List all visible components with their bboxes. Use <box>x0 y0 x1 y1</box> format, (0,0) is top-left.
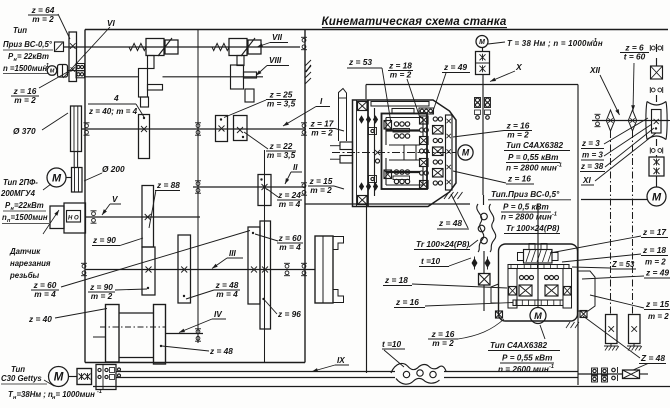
clutch 1 boxes <box>146 39 164 56</box>
svg-text:М: М <box>54 372 64 384</box>
leadscrew break symbol <box>391 363 446 373</box>
bevel diamond 1 <box>606 110 614 131</box>
gear z88 on shaft V <box>142 186 154 248</box>
svg-text:М: М <box>50 68 55 74</box>
svg-text:М: М <box>652 191 662 203</box>
svg-text:Тип 2ПФ-: Тип 2ПФ- <box>3 178 38 187</box>
svg-text:z = 3: z = 3 <box>581 139 600 148</box>
bevel diamond 2 <box>628 110 636 131</box>
shaft VIII <box>68 70 77 72</box>
svg-text:t =10: t =10 <box>421 256 441 266</box>
rack pinion xbox <box>623 370 640 379</box>
svg-text:n = 2600 мин: n = 2600 мин <box>498 365 549 374</box>
right strip B <box>433 117 437 121</box>
motor M T38 <box>476 36 488 48</box>
apron left bracket <box>491 284 499 303</box>
svg-text:m = 2: m = 2 <box>311 127 333 137</box>
svg-text:m = 2: m = 2 <box>390 69 412 79</box>
wall hatching near shaft VIII <box>306 65 311 72</box>
svg-text:m = 2: m = 2 <box>432 338 454 348</box>
svg-text:z = 48: z = 48 <box>438 218 462 228</box>
svg-text:резьбы: резьбы <box>9 271 40 280</box>
svg-text:Датчик: Датчик <box>9 247 41 256</box>
svg-text:z = 38: z = 38 <box>580 162 604 171</box>
belt arrows pair <box>472 258 478 268</box>
svg-text:z = 16: z = 16 <box>395 297 419 307</box>
feedbox right wall x578 <box>577 85 579 386</box>
apron bottom gear band <box>513 300 563 306</box>
thread sensor box <box>64 203 86 233</box>
right strip A <box>420 116 429 124</box>
bearing under wheel <box>650 148 662 154</box>
svg-text:m = 2: m = 2 <box>14 95 36 105</box>
svg-text:Ø 370: Ø 370 <box>13 126 36 136</box>
apron right bracket <box>578 271 596 311</box>
headstock left column <box>367 100 369 207</box>
svg-text:VIII: VIII <box>269 56 282 65</box>
svg-text:=38Нм ; n: =38Нм ; n <box>17 390 54 399</box>
svg-text:n = 2800 мин: n = 2800 мин <box>501 213 552 222</box>
svg-text:m = 2: m = 2 <box>648 312 669 321</box>
clutch 1 hanger <box>148 56 155 69</box>
svg-text:m = 3,5: m = 3,5 <box>267 150 296 160</box>
svg-text:VII: VII <box>272 33 283 42</box>
screw nut <box>524 250 553 264</box>
svg-text:z = 16: z = 16 <box>507 174 531 184</box>
ground right <box>633 344 635 347</box>
bed line y204 <box>305 203 470 205</box>
belt axis <box>100 326 166 328</box>
bed vertical x366 <box>366 204 368 373</box>
bearing shaft II x198 <box>195 181 201 193</box>
svg-text:Р = 0,5 кВт: Р = 0,5 кВт <box>503 203 549 212</box>
spring clutch 1 <box>129 43 146 50</box>
lower gear cluster <box>384 170 392 179</box>
gear z25 <box>216 116 228 142</box>
svg-text:n =1500мин: n =1500мин <box>3 64 47 73</box>
belt pulley left <box>106 305 120 363</box>
svg-text:М: М <box>52 172 62 184</box>
svg-text:= 1000мин: = 1000мин <box>56 390 96 399</box>
shaft VII <box>64 46 301 48</box>
spindle axis <box>332 152 456 154</box>
motor pulley D200 <box>72 168 83 193</box>
headstock motor <box>458 145 473 160</box>
bottom rack line <box>93 386 670 388</box>
svg-text:4: 4 <box>113 93 119 103</box>
svg-text:m = 4: m = 4 <box>216 289 238 299</box>
vertical screw chain <box>483 195 485 205</box>
frame left wall <box>84 30 86 363</box>
coupling on motor shaft <box>58 65 68 78</box>
xbox below chain <box>479 274 491 286</box>
feedbox top line y84.5 <box>366 84 578 86</box>
shaft V <box>86 216 201 218</box>
intermediate shaft column x198 <box>197 30 199 344</box>
worm gear box on X <box>476 52 490 75</box>
motor C30 Gettys <box>49 367 69 387</box>
svg-text:z = 90: z = 90 <box>92 235 116 245</box>
leader z60 left long <box>61 231 250 288</box>
svg-text:Тип С4АХ6382: Тип С4АХ6382 <box>490 341 547 350</box>
svg-text:III: III <box>229 249 237 258</box>
svg-text:m = 4: m = 4 <box>279 199 301 209</box>
gear hanging right <box>629 315 641 344</box>
spindle chuck <box>315 236 333 303</box>
middle gear mark <box>375 150 380 155</box>
svg-text:Кинематическая схема станка: Кинематическая схема станка <box>322 15 507 28</box>
svg-text:Z = 48: Z = 48 <box>640 353 665 363</box>
bearing box <box>96 365 116 390</box>
gear z48 m4 on shaft III <box>178 235 191 303</box>
clutch bar right <box>446 115 453 190</box>
svg-text:Р = 0,55 кВт: Р = 0,55 кВт <box>502 354 552 363</box>
svg-text:VI: VI <box>107 19 115 28</box>
svg-text:m = 2: m = 2 <box>310 185 332 195</box>
shaft III <box>85 269 315 271</box>
svg-text:Ø 200: Ø 200 <box>102 164 125 174</box>
svg-text:М: М <box>534 311 542 321</box>
coupling worm motor <box>649 157 664 176</box>
worm z6 box <box>651 66 663 79</box>
bearing shaft III left <box>81 263 87 275</box>
inner spline shaft <box>374 108 376 196</box>
apron housing <box>499 244 578 321</box>
vertical to gear right <box>632 131 634 315</box>
leader t60 to diamond <box>633 63 634 111</box>
bearing shaft IV <box>195 329 201 341</box>
shaft I <box>82 128 307 130</box>
gearbox right wall <box>304 30 306 363</box>
leaders z3 m3 z38 <box>604 118 648 144</box>
pulley D370 <box>71 106 82 152</box>
svg-text:m = 2: m = 2 <box>32 14 54 24</box>
apron top gear band <box>508 265 569 269</box>
bearing marks left <box>369 128 377 135</box>
svg-text:-1: -1 <box>592 38 597 44</box>
svg-text:m = 2: m = 2 <box>645 258 666 267</box>
bearing shaft VII right <box>301 37 307 49</box>
main motor 2PF <box>47 168 66 187</box>
svg-text:XI: XI <box>582 176 591 185</box>
svg-text:m = 4: m = 4 <box>279 242 301 252</box>
screw to feed motor <box>581 199 647 201</box>
svg-text:m = 2: m = 2 <box>91 291 113 301</box>
svg-text:z = 40; m = 4: z = 40; m = 4 <box>88 107 138 116</box>
svg-text:Тип: Тип <box>13 26 27 35</box>
svg-text:z = 15: z = 15 <box>645 299 669 309</box>
svg-text:Н О: Н О <box>68 216 79 222</box>
svg-text:нарезания: нарезания <box>10 259 51 268</box>
gear z22 <box>234 116 248 141</box>
svg-text:m = 3,5: m = 3,5 <box>267 98 296 108</box>
svg-text:-1: -1 <box>552 212 557 218</box>
svg-text:XII: XII <box>589 66 601 75</box>
svg-text:-1: -1 <box>549 364 554 370</box>
cross screw vertical <box>537 204 539 308</box>
svg-text:Приз ВС-0,5°: Приз ВС-0,5° <box>3 40 53 49</box>
svg-text:n = 2800 мин: n = 2800 мин <box>506 164 557 173</box>
shaft XII line <box>592 120 669 122</box>
apron center gears right <box>545 276 549 280</box>
bearings shaft III right <box>284 263 290 275</box>
gear block z64-z16 <box>69 32 77 82</box>
leader z16 <box>39 72 68 88</box>
bearing shaft V <box>91 211 97 223</box>
motor M 22kW <box>47 66 57 76</box>
svg-text:z = 18: z = 18 <box>642 245 666 255</box>
bearing under worm <box>650 87 662 93</box>
svg-text:М: М <box>462 148 470 158</box>
spindle nose column <box>339 89 347 142</box>
svg-text:С30 Gettys: С30 Gettys <box>1 374 42 383</box>
svg-text:z = 18: z = 18 <box>384 275 408 285</box>
svg-text:=1500мин: =1500мин <box>11 213 48 222</box>
svg-text:-1: -1 <box>557 163 562 169</box>
svg-text:z = 96: z = 96 <box>277 309 301 319</box>
svg-text:t =10: t =10 <box>382 339 402 349</box>
svg-text:= 22кВт: = 22кВт <box>17 52 49 61</box>
svg-text:Тип С4АХ6382: Тип С4АХ6382 <box>506 141 563 150</box>
bearing shaft I left <box>84 123 90 135</box>
leadscrew line <box>116 371 395 373</box>
shaft II <box>193 186 306 188</box>
svg-text:z = 53: z = 53 <box>348 57 372 67</box>
diamond row bottom <box>359 182 364 190</box>
clutch 2 hanger <box>237 56 244 66</box>
bearings on shaft X <box>476 98 480 102</box>
spring clutch 2 <box>212 43 229 50</box>
bearing shaft I right wall <box>301 123 307 135</box>
apron left column <box>508 269 517 309</box>
xbox top-left <box>358 102 368 111</box>
gear z17 hanging <box>606 315 618 344</box>
headstock housing <box>353 100 457 207</box>
ground left <box>610 344 612 347</box>
spindle nose <box>340 142 353 150</box>
svg-text:Р = 0,55 кВт: Р = 0,55 кВт <box>508 153 558 162</box>
svg-text:z = 49: z = 49 <box>645 268 669 278</box>
bearings on feed rod <box>592 368 598 375</box>
belt pulley right <box>154 305 166 365</box>
svg-text:z = 40: z = 40 <box>28 314 52 324</box>
svg-text:m = 2: m = 2 <box>507 129 529 139</box>
svg-text:Тип: Тип <box>11 365 25 374</box>
clutch 2 boxes <box>229 39 247 56</box>
svg-text:m = 3: m = 3 <box>582 151 603 160</box>
svg-text:Z = 53: Z = 53 <box>611 260 635 269</box>
belt lines <box>119 312 154 314</box>
shaft IV <box>93 336 106 338</box>
worm wheel <box>646 102 667 140</box>
bearing XII left <box>595 114 601 126</box>
apron right column <box>563 269 572 309</box>
bearing shaft I x198 <box>195 123 201 135</box>
gearbox bottom wall <box>85 362 305 364</box>
svg-text:t = 60: t = 60 <box>624 51 646 61</box>
leader VI <box>63 27 110 78</box>
diamond row top <box>359 115 364 123</box>
mid bars <box>389 144 420 146</box>
bearing block <box>76 64 85 71</box>
svg-text:Т = 38 Нм ; n = 1000мин: Т = 38 Нм ; n = 1000мин <box>507 39 603 48</box>
svg-text:Tr 100×24(Р8): Tr 100×24(Р8) <box>506 224 560 233</box>
gear z24 on shaft II <box>258 175 271 206</box>
svg-text:-1: -1 <box>97 389 102 395</box>
apron hatch bottom <box>566 322 570 328</box>
apron center gears left <box>520 276 524 280</box>
svg-text:Tr 100×24(Р8): Tr 100×24(Р8) <box>416 240 470 249</box>
xbox bottom-left <box>358 196 368 205</box>
svg-text:z = 88: z = 88 <box>156 180 180 190</box>
bearing shaft II wall <box>301 183 307 195</box>
variator box on shaft VII <box>55 42 64 52</box>
svg-text:=22кВт: =22кВт <box>14 201 44 210</box>
leader z64 <box>58 14 70 39</box>
intermediate shaft column x264 <box>264 150 266 363</box>
bearing worm top <box>650 45 662 51</box>
feed motor Priz <box>647 187 666 206</box>
gear z90 on shaft III <box>142 247 155 295</box>
svg-text:z = 49: z = 49 <box>443 62 467 72</box>
svg-text:IX: IX <box>337 356 345 365</box>
upper gear cluster <box>384 121 392 130</box>
coupling <box>77 369 92 385</box>
svg-text:200МГУ4: 200МГУ4 <box>0 189 36 198</box>
svg-text:m = 4: m = 4 <box>34 289 56 299</box>
svg-text:II: II <box>293 163 298 172</box>
shifter rail top <box>371 102 429 107</box>
top bar <box>392 109 414 114</box>
feed rod line <box>116 377 395 379</box>
hatch under headstock <box>444 192 449 199</box>
belt to motor pulley <box>73 152 75 168</box>
svg-text:z = 48: z = 48 <box>209 346 233 356</box>
svg-text:-1: -1 <box>44 63 49 69</box>
svg-text:Тип.Приз ВС-0,5°: Тип.Приз ВС-0,5° <box>491 190 560 199</box>
gear z60 on shaft III right <box>248 227 260 304</box>
gear z96 <box>260 221 271 329</box>
svg-text:М: М <box>479 39 485 46</box>
gear z40 on shaft I <box>139 115 150 159</box>
inner channel <box>382 114 428 190</box>
vertical to gear z17 left <box>610 131 612 315</box>
shaft X vertical <box>482 75 484 196</box>
frame top line <box>85 29 668 31</box>
apron motor <box>530 308 546 324</box>
svg-text:z = 17: z = 17 <box>642 227 666 237</box>
worm shaft vertical <box>656 44 658 52</box>
feed rod right of apron <box>578 373 623 375</box>
top circles row <box>419 108 434 114</box>
